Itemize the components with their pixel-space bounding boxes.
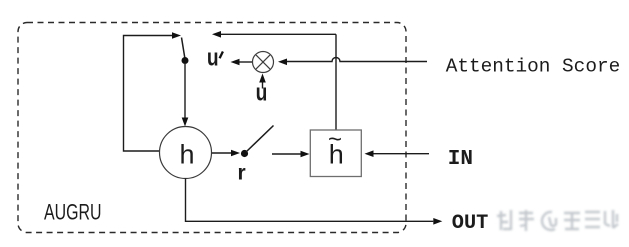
hidden state circle h — [160, 127, 212, 179]
wire: h left feedback loop (h left -> up -> right to switch) — [124, 36, 173, 152]
wire: into h-tilde box, arrow — [272, 153, 301, 155]
node: junction dot (top switch pole) — [182, 57, 189, 64]
wire: vertical riser from h-tilde box top — [335, 34, 337, 130]
wire: dot down into h, with arrowhead — [184, 64, 186, 118]
wire: u up into multiplier — [262, 83, 264, 89]
svg-text:Attention Score: Attention Score — [446, 56, 621, 78]
wire: h bottom to OUT — [186, 179, 434, 222]
svg-text:u: u — [256, 79, 268, 107]
watermark zhihu (blurred gray glyph blobs) — [497, 210, 618, 231]
svg-text:r: r — [238, 162, 246, 185]
svg-text:h: h — [180, 140, 195, 170]
switch blade (update gate u') — [182, 38, 186, 60]
multiplier circle (x) — [253, 52, 274, 73]
wire: attention score line with hop over riser, arrow into multiplier — [287, 58, 427, 62]
wire: top horizontal from h-tilde riser, arrow pointing left — [221, 33, 336, 35]
svg-text:u: u — [207, 44, 219, 72]
wire: IN arrow into box right side — [374, 153, 430, 155]
candidate state box h-tilde — [310, 130, 361, 177]
arrowhead into top switch — [172, 32, 181, 39]
node: junction dot (reset switch pole) — [241, 150, 248, 157]
wire: h right to reset switch, arrow — [212, 152, 231, 154]
AUGRU dashed enclosure — [18, 23, 406, 233]
svg-text:IN: IN — [448, 148, 473, 171]
svg-text:OUT: OUT — [452, 212, 489, 235]
switch blade (reset gate r) — [246, 126, 274, 153]
wire: multiplier to u' arrow — [240, 61, 253, 63]
svg-text:AUGRU: AUGRU — [44, 200, 102, 225]
svg-text:~: ~ — [328, 126, 342, 153]
